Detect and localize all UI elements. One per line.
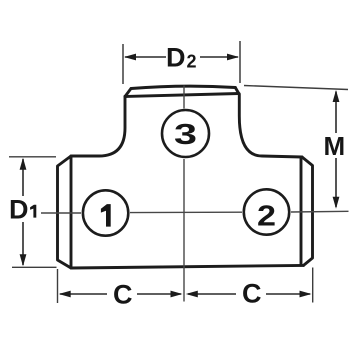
- dimension D2 arrows: [124, 54, 239, 61]
- dimension M arrows: [333, 90, 340, 209]
- dimension D1 line: [22, 159, 24, 265]
- dimension D1 arrows: [20, 158, 27, 266]
- top face top edge: [131, 86, 235, 88]
- svg-text:C: C: [242, 279, 262, 309]
- right end face: [301, 157, 313, 265]
- dimension M line: [335, 92, 337, 208]
- dimension D2 ticks: [123, 41, 240, 84]
- horizontal centerline: [41, 211, 349, 213]
- dimension C extension lines: [58, 268, 313, 304]
- run bottom edge: [71, 265, 304, 268]
- stub right wall + right fillet + run top edge right: [239, 94, 302, 157]
- top face right edge: [235, 88, 239, 94]
- svg-text:C: C: [113, 279, 133, 309]
- svg-text:2: 2: [187, 52, 197, 72]
- dimension M extension line: [244, 86, 348, 90]
- svg-text:D: D: [166, 43, 186, 73]
- tee body outline: [58, 86, 313, 268]
- run top edge left + left fillet + stub left wall: [71, 97, 125, 157]
- left end face: [58, 156, 72, 268]
- svg-text:3: 3: [174, 119, 197, 151]
- dimension C line: [60, 293, 310, 295]
- port circle 3: [162, 110, 209, 157]
- vertical centerline: [183, 86, 185, 302]
- port circle 2: [244, 189, 289, 234]
- top face front edge: [125, 94, 239, 97]
- svg-text:D: D: [9, 194, 29, 224]
- svg-text:2: 2: [257, 201, 276, 233]
- dimension C arrows: [59, 291, 312, 298]
- svg-text:M: M: [324, 131, 346, 161]
- port circle 1: [83, 190, 128, 235]
- dimension D1 extension lines: [9, 157, 57, 267]
- top face left bevel: [125, 89, 131, 97]
- dimension D2 line: [125, 56, 238, 58]
